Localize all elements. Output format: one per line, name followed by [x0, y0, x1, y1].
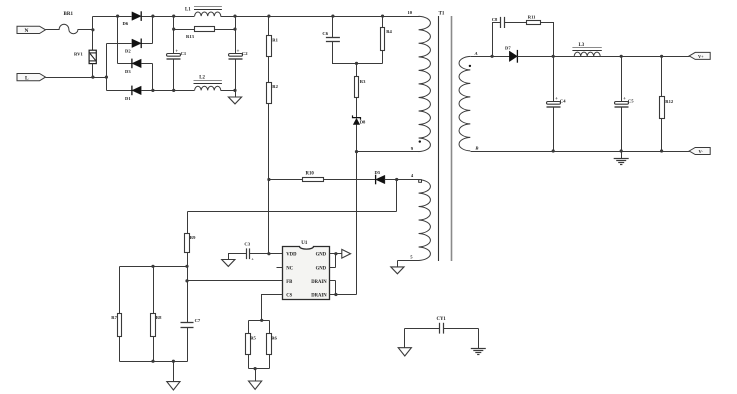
svg-text:R4: R4: [386, 29, 392, 34]
wire bridge vert AC-L: [106, 44, 108, 91]
capacitor C7: [181, 318, 201, 328]
node R8 bottom: [151, 360, 154, 363]
resistor R2: [267, 83, 279, 104]
svg-text:NC: NC: [286, 266, 293, 271]
svg-text:V-: V-: [699, 149, 704, 154]
core line 1: [438, 16, 440, 261]
wire bridge vert DC+: [152, 17, 154, 44]
svg-text:R1: R1: [272, 38, 278, 43]
wire L1-to-primary: [221, 16, 420, 18]
wire R4 bottom: [382, 51, 384, 64]
diode D5: [375, 170, 385, 184]
diode D1: [125, 86, 141, 101]
wire top rail left: [93, 16, 132, 18]
svg-text:BR1: BR1: [64, 12, 74, 17]
diode D3: [125, 59, 141, 74]
primary winding: [419, 16, 431, 151]
wire CY1 left: [405, 328, 440, 330]
wire R13 row left: [174, 29, 195, 31]
resistor R13: [186, 27, 215, 39]
capacitor C1: [167, 49, 187, 59]
svg-text:R5: R5: [250, 335, 256, 340]
node C2 top: [233, 15, 236, 18]
ground input-filter: [228, 97, 241, 104]
capacitor C6: [322, 31, 340, 42]
node gnd tap: [172, 360, 175, 363]
resistor R8: [151, 314, 163, 337]
port L: [17, 74, 46, 82]
wire R4 top: [382, 17, 384, 28]
ground CY1 left: [398, 348, 411, 356]
wire R5R6 bottom: [249, 368, 270, 370]
node VDD junction: [267, 252, 270, 255]
wire RV1-to-L: [92, 64, 94, 78]
wire R2-down: [268, 104, 270, 254]
wire CY1 right: [444, 328, 479, 330]
svg-text:C6: C6: [322, 31, 328, 36]
wire R13 row right: [215, 29, 236, 31]
svg-text:VDD: VDD: [286, 253, 297, 258]
svg-text:V+: V+: [698, 54, 704, 59]
svg-text:+: +: [237, 49, 240, 55]
wire R12 bottom: [661, 119, 663, 152]
wire C6 top: [332, 17, 334, 38]
node DRAIN join: [334, 293, 337, 296]
svg-text:D1: D1: [125, 96, 131, 101]
svg-text:C3: C3: [244, 242, 250, 247]
svg-text:R2: R2: [272, 84, 278, 89]
ground output earth: [614, 159, 629, 165]
node CS-R5R6: [260, 319, 263, 322]
wire C3 gnd: [229, 254, 247, 260]
wire drain riser: [356, 152, 358, 295]
svg-text:B: B: [474, 145, 478, 150]
svg-text:+: +: [251, 256, 254, 261]
wire R6 bottom: [269, 355, 271, 369]
wire output bottom rail: [471, 151, 690, 153]
label pin 9: [411, 146, 414, 151]
svg-text:9: 9: [411, 146, 414, 151]
inductor L2: [194, 76, 222, 91]
svg-text:C8: C8: [492, 17, 498, 22]
svg-text:C5: C5: [628, 99, 634, 104]
node R12 bottom: [660, 149, 663, 152]
core line 2: [451, 16, 453, 261]
svg-text:CS: CS: [286, 294, 292, 299]
svg-text:10: 10: [408, 10, 413, 15]
wire R7 col: [119, 267, 121, 314]
capacitor C3: [244, 242, 254, 262]
svg-text:T1: T1: [439, 12, 445, 17]
svg-text:L2: L2: [199, 76, 205, 81]
pin VDD: [286, 253, 297, 258]
secondary polarity dot: [469, 65, 471, 67]
inductor L3: [572, 43, 601, 56]
pin GND2: [316, 266, 327, 271]
capacitor C8: [492, 17, 505, 28]
wire CY1 right stem: [478, 329, 480, 349]
varistor RV1: [74, 50, 96, 63]
label T1: [439, 12, 445, 17]
svg-text:R6: R6: [271, 335, 277, 340]
node GND join: [334, 252, 337, 255]
svg-text:R7: R7: [111, 315, 117, 320]
wire R5R6 top: [249, 320, 270, 322]
wire bridge vert DC-: [152, 64, 154, 91]
wire R5R6 gnd stem: [255, 369, 257, 382]
pin CS: [286, 294, 292, 299]
primary polarity dot: [419, 140, 421, 142]
secondary winding: [459, 56, 470, 150]
svg-text:5: 5: [410, 254, 413, 259]
resistor R12: [660, 97, 674, 119]
svg-text:DRAIN: DRAIN: [311, 280, 327, 285]
svg-text:D7: D7: [505, 46, 511, 51]
wire L: [46, 77, 107, 79]
node R9-row1: [185, 265, 188, 268]
wire primary bottom: [357, 151, 420, 153]
node R10 left: [267, 178, 270, 181]
zener D8: [353, 115, 367, 124]
node L-bridge junction: [105, 76, 108, 79]
wire D5-pin4: [385, 179, 420, 181]
wire R5 col: [248, 321, 250, 334]
wire R8 bottom: [153, 337, 155, 362]
svg-text:R13: R13: [186, 34, 195, 39]
wire N-to-fuse: [46, 29, 60, 31]
label A: [474, 51, 478, 56]
inductor L1: [185, 7, 222, 17]
resistor R1: [267, 36, 279, 57]
pin DRAIN1: [311, 280, 327, 285]
wire C7 bottom: [187, 328, 189, 362]
node C5 top: [620, 55, 623, 58]
svg-text:FB: FB: [286, 280, 292, 285]
label B: [474, 145, 478, 150]
wire bottom bus: [120, 361, 188, 363]
svg-text:GND: GND: [316, 266, 327, 271]
aux winding: [419, 180, 431, 261]
wire R9-down: [187, 253, 189, 323]
pin DRAIN2: [311, 294, 327, 299]
wire D1 row: [107, 90, 195, 92]
wire C3-VDD: [250, 253, 283, 255]
resistor R9: [185, 234, 197, 253]
svg-text:C4: C4: [560, 99, 566, 104]
wire R11-right vert: [541, 23, 554, 57]
wire D8-switchnode: [356, 125, 358, 152]
wire R10-D5: [324, 179, 376, 181]
svg-text:R9: R9: [190, 235, 196, 240]
svg-text:A: A: [474, 51, 478, 56]
node feedback tap: [395, 178, 398, 181]
wire FB row: [188, 280, 283, 282]
svg-text:C2: C2: [242, 51, 248, 56]
ground divider: [167, 382, 180, 390]
wire snub left vert: [493, 23, 501, 57]
wire C1 column bottom: [173, 60, 175, 91]
svg-text:D6: D6: [123, 21, 129, 26]
svg-text:CY1: CY1: [437, 317, 447, 322]
capacitor C2: [229, 49, 249, 59]
wire DRAIN1 row: [330, 280, 336, 282]
wire N vertical: [92, 17, 94, 51]
node R1 top: [267, 15, 270, 18]
wire R6 col: [269, 321, 271, 334]
wire R9 top: [187, 212, 189, 234]
wire pin5 gnd stem: [397, 261, 399, 267]
node RV1-L junction: [91, 76, 94, 79]
resistor R5: [246, 334, 257, 355]
node top-1: [116, 15, 119, 18]
resistor R3: [355, 77, 367, 98]
svg-text:DRAIN: DRAIN: [311, 294, 327, 299]
wire aux pin5: [398, 260, 420, 262]
wire C2 column top: [235, 17, 237, 54]
resistor R11: [527, 15, 541, 25]
node C4 top: [552, 55, 555, 58]
node R13 right: [233, 28, 236, 31]
svg-text:D5: D5: [375, 170, 381, 175]
port N: [17, 26, 46, 34]
diode D6: [123, 11, 142, 26]
capacitor C5: [615, 96, 635, 107]
pin GND1: [316, 253, 327, 258]
svg-text:R3: R3: [360, 79, 366, 84]
node C1 top: [172, 15, 175, 18]
fuse BR1: [59, 12, 78, 34]
wire R12 top: [661, 57, 663, 97]
wire bridge vert AC-N: [117, 17, 119, 64]
node N-junction: [91, 28, 94, 31]
svg-text:L3: L3: [579, 43, 585, 48]
wire gnd stem left: [173, 362, 175, 382]
wire R1 top: [268, 17, 270, 36]
wire R10 left: [269, 179, 303, 181]
capacitor C4: [547, 96, 567, 107]
pin NC: [286, 266, 293, 271]
svg-text:C1: C1: [181, 51, 187, 56]
svg-text:L: L: [25, 75, 29, 81]
wire C8-R11: [505, 22, 527, 24]
node C1 bottom: [172, 89, 175, 92]
diode D7: [505, 46, 517, 63]
wire C6 bottom: [333, 42, 383, 64]
svg-text:+: +: [555, 96, 558, 102]
svg-text:+: +: [623, 96, 626, 102]
node C5 bottom: [620, 149, 623, 152]
svg-text:GND: GND: [316, 253, 327, 258]
wire C4 column: [553, 57, 555, 102]
label pin 10: [408, 10, 413, 15]
wire R3 top: [356, 64, 358, 77]
wire D2 row: [107, 43, 153, 45]
node snubber mid: [355, 62, 358, 65]
svg-text:D3: D3: [125, 69, 131, 74]
ground C3: [222, 260, 235, 267]
wire tap-to-R9: [188, 211, 397, 213]
wire C2 column bottom: [235, 60, 237, 91]
svg-text:D2: D2: [125, 49, 131, 54]
node R13 left: [172, 28, 175, 31]
svg-text:+: +: [175, 49, 178, 55]
svg-text:U1: U1: [301, 241, 308, 246]
wire C1 column top: [173, 17, 175, 54]
node R4 top: [381, 15, 384, 18]
port V-: [689, 148, 710, 155]
wire L2-to-C2: [221, 90, 236, 92]
node DC- gnd: [233, 89, 236, 92]
svg-text:R11: R11: [528, 15, 536, 20]
wire R5 bottom: [248, 355, 250, 369]
node R12 top: [660, 55, 663, 58]
node R8 top: [151, 265, 154, 268]
resistor R7: [111, 314, 121, 337]
svg-text:R8: R8: [156, 315, 162, 320]
wire R3-D8: [356, 98, 358, 118]
wire C5 bottom: [621, 107, 623, 152]
wire CS row: [262, 295, 283, 321]
resistor R6: [267, 334, 278, 355]
label pin 5: [410, 254, 413, 259]
wire GND vert: [335, 254, 337, 268]
svg-text:D8: D8: [360, 119, 366, 124]
svg-text:L1: L1: [185, 7, 191, 12]
node DC- 1: [151, 89, 154, 92]
pin FB: [286, 280, 292, 285]
wire output top rail: [518, 56, 690, 58]
wire DRAIN vert: [335, 281, 337, 295]
ground aux: [391, 267, 404, 274]
wire gnd stem input: [235, 91, 237, 98]
wire C4 bottom: [553, 107, 555, 152]
wire D3 row: [118, 63, 153, 65]
wire fuse-to-junction: [78, 29, 93, 31]
node R5R6 gnd: [254, 367, 257, 370]
wire tap vert: [396, 180, 398, 212]
node snub left: [491, 55, 494, 58]
wire DRAIN2 row: [330, 294, 357, 296]
resistor R4: [381, 28, 393, 51]
wire GND1 row: [330, 253, 342, 255]
node switch: [355, 150, 358, 153]
wire R7 bottom: [119, 337, 121, 362]
wire D6-to-L1: [142, 16, 195, 18]
label pin 4: [411, 173, 414, 178]
svg-text:R10: R10: [306, 172, 315, 177]
wire secondary-to-D7: [471, 56, 510, 58]
wire NC stub: [277, 267, 283, 269]
ground R5R6: [249, 381, 262, 389]
wire GND2 row: [330, 267, 336, 269]
capacitor CY1: [437, 317, 447, 334]
node C6 top: [331, 15, 334, 18]
wire CY1 left stem: [404, 329, 406, 348]
wire R8 col: [153, 267, 155, 314]
port V+: [689, 52, 710, 59]
resistor R10: [303, 172, 324, 182]
ground CY1 earth: [471, 349, 486, 355]
svg-text:R12: R12: [665, 99, 674, 104]
wire R7R8 top: [120, 266, 188, 268]
svg-text:C7: C7: [195, 318, 201, 323]
wire R1-R2: [268, 57, 270, 83]
svg-text:4: 4: [411, 173, 414, 178]
svg-text:N: N: [25, 28, 29, 34]
wire out-gnd stem: [621, 152, 623, 159]
node top-2: [151, 15, 154, 18]
svg-text:RV1: RV1: [74, 52, 83, 57]
node C4 bottom: [552, 149, 555, 152]
diode D2: [125, 39, 141, 54]
wire C5 column: [621, 57, 623, 102]
aux polarity square: [419, 180, 422, 183]
chip U1: [283, 241, 330, 299]
node R9-FB: [185, 279, 188, 282]
ground chip arrow: [342, 249, 351, 258]
